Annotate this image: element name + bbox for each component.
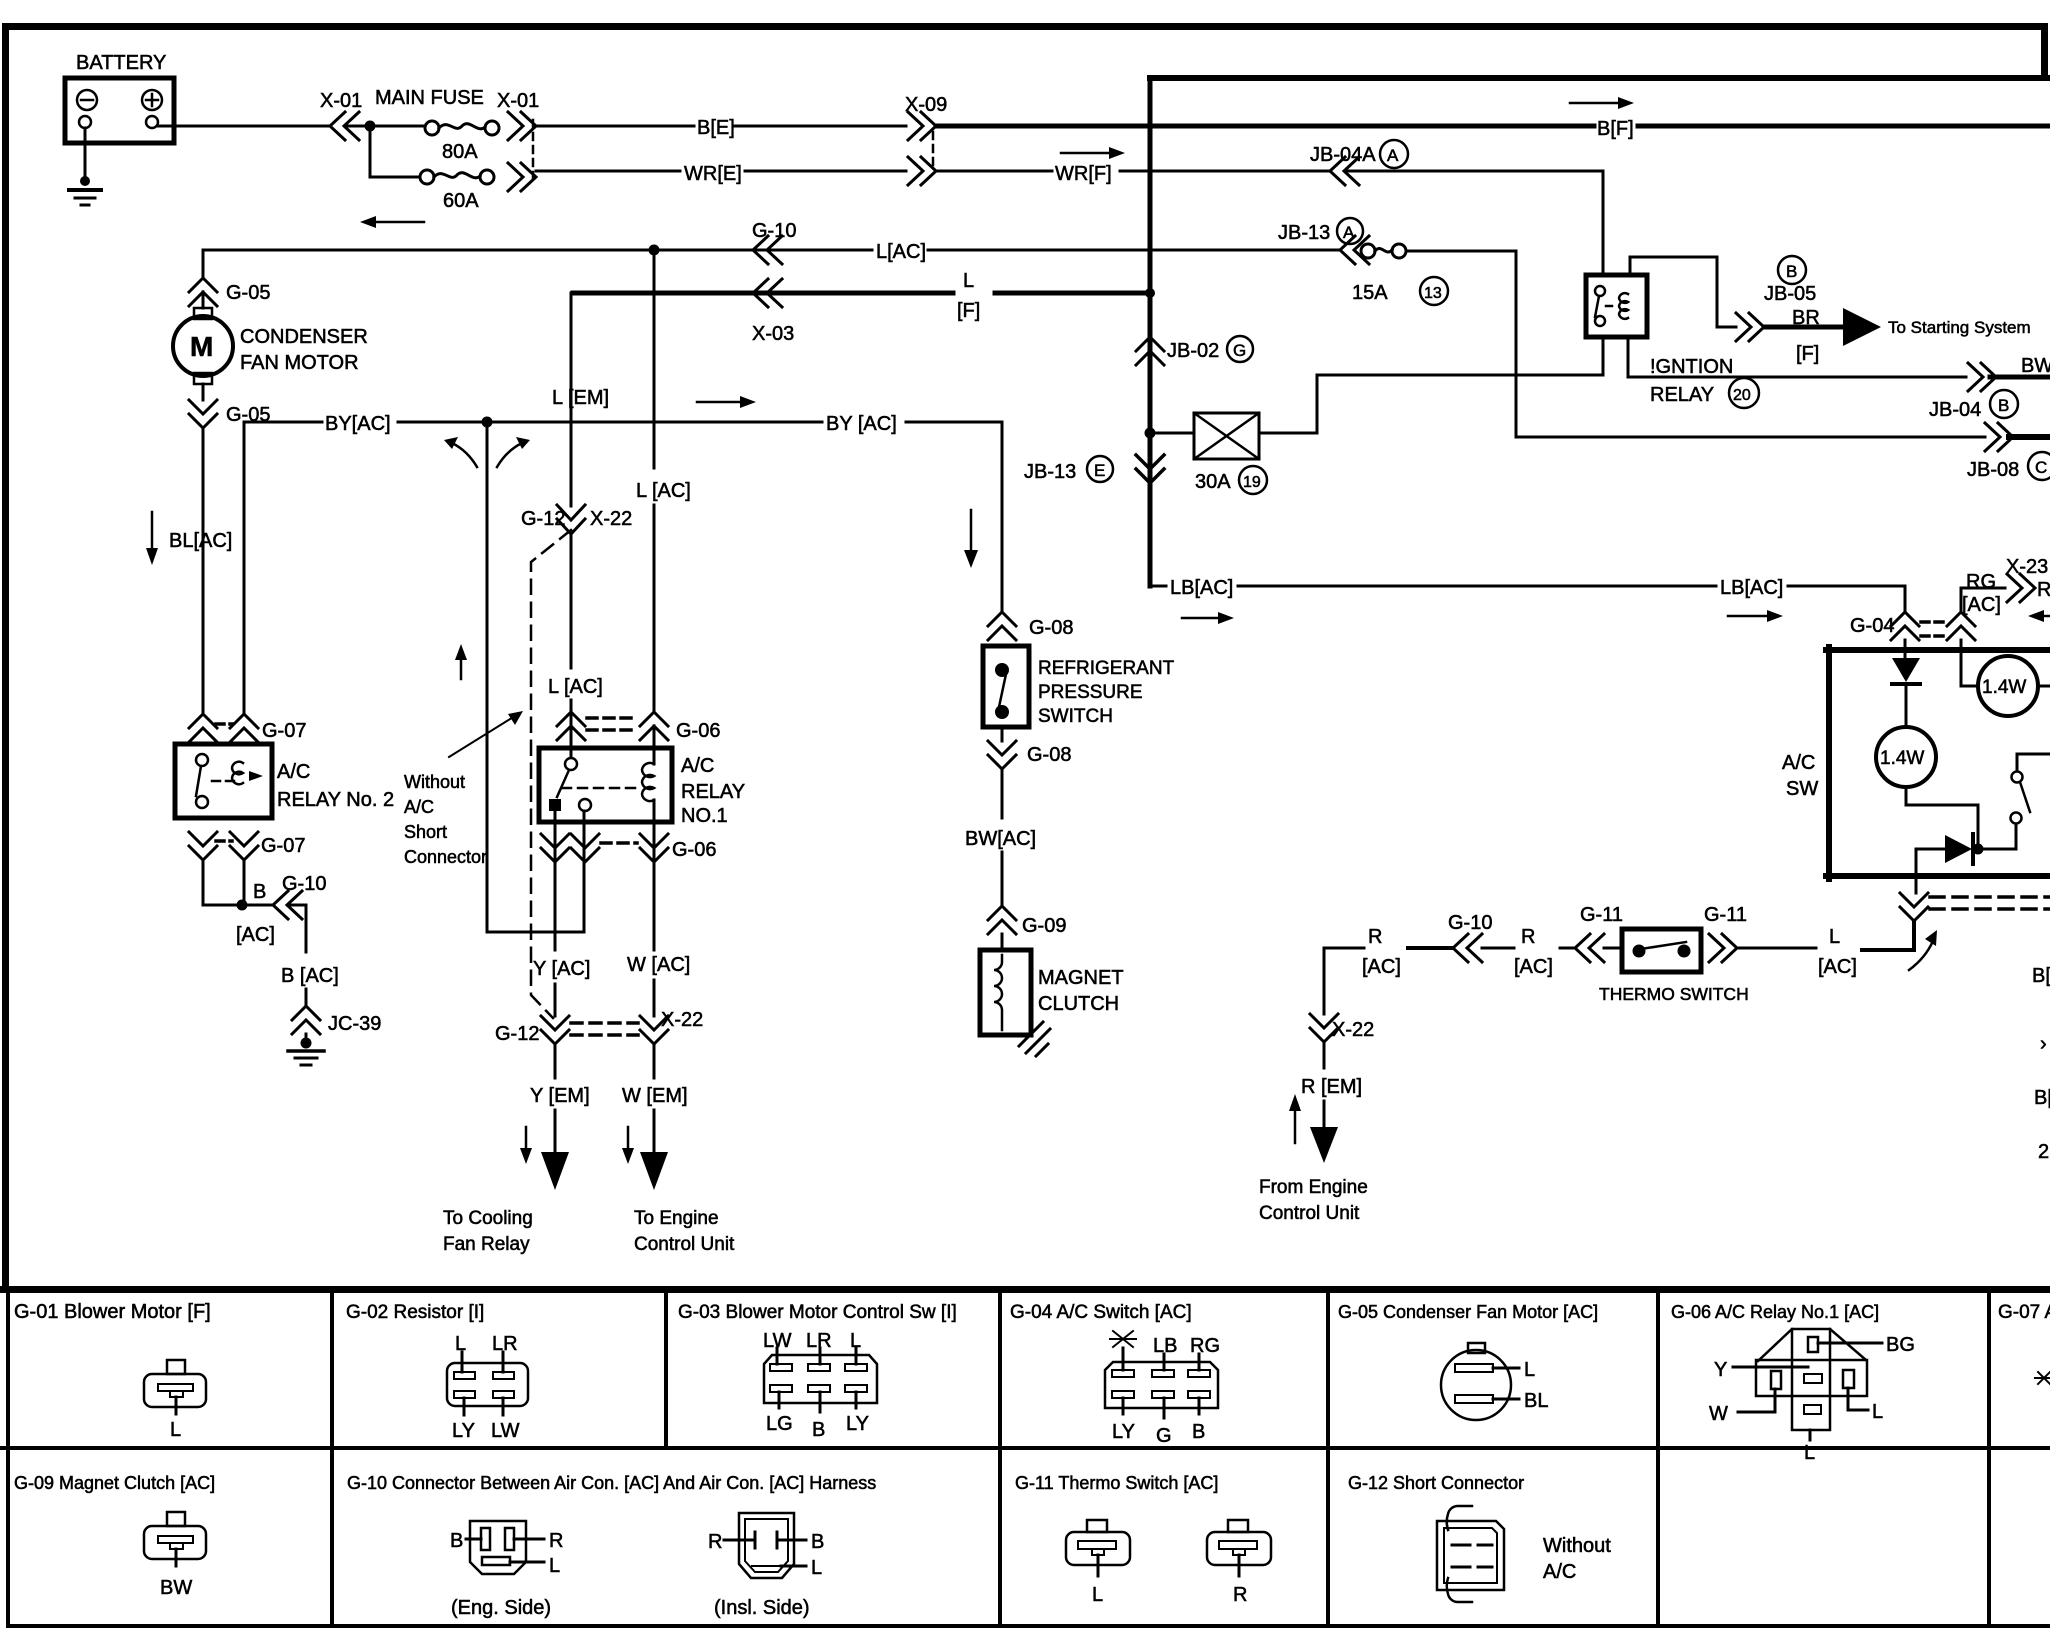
svg-text:NO.1: NO.1 (681, 805, 728, 827)
wire thermo row left + R[AC] (1324, 926, 1452, 978)
svg-text:G-10 Connector Between Air Con: G-10 Connector Between Air Con. [AC] And… (347, 1473, 876, 1493)
svg-text:X-22: X-22 (1332, 1019, 1374, 1041)
svg-text:R: R (1368, 926, 1382, 948)
connector G-08 (bottom) (988, 741, 1071, 769)
arrow right above B[F] (1570, 97, 1634, 109)
svg-text:Y [AC]: Y [AC] (533, 958, 590, 980)
relay ignition relay (20) (1586, 275, 1759, 408)
text To Engine Control Unit (634, 1208, 735, 1255)
svg-text:L: L (1092, 1584, 1103, 1606)
svg-text:Connector: Connector (404, 847, 487, 867)
wire L[AC] down to thermo row (1862, 921, 1914, 950)
wire G-04 into box (1904, 640, 1907, 658)
connector X-22 (R line) (1310, 1014, 1374, 1042)
svg-text:SW: SW (1786, 778, 1818, 800)
svg-text:›: › (2040, 1033, 2047, 1055)
connector G-10 (thermo) (1448, 912, 1492, 962)
svg-text:LB[AC]: LB[AC] (1720, 577, 1783, 599)
cell G-01 Blower Motor (14, 1301, 211, 1441)
svg-text:BW[AC]: BW[AC] (965, 828, 1036, 850)
svg-text:M: M (190, 331, 213, 362)
svg-text:G-05: G-05 (226, 282, 270, 304)
svg-text:JB-08: JB-08 (1967, 459, 2019, 481)
wire Y[AC] (533, 811, 590, 1016)
connector G-11 (left) (1575, 904, 1623, 962)
svg-text:L: L (1524, 1359, 1535, 1381)
svg-text:A/C: A/C (1543, 1561, 1576, 1583)
wire LB down to G-04 (1904, 586, 1907, 612)
lamp 1.4W (right) (1978, 656, 2050, 716)
svg-text:RG: RG (1190, 1335, 1220, 1357)
wire without-A/C dashed bypass (531, 530, 571, 1018)
wire L[AC] to motor (202, 250, 205, 278)
svg-text:WR[F]: WR[F] (1055, 163, 1112, 185)
wire LB[AC] (1150, 577, 1905, 599)
svg-text:B: B (811, 1531, 824, 1553)
connector G-10 (B[AC]) (236, 873, 326, 946)
connector X-01 (right, double row) (497, 90, 539, 191)
node 30A branch (1145, 428, 1156, 439)
wire BW[AC] (965, 727, 1036, 906)
svg-text:BY [AC]: BY [AC] (826, 413, 897, 435)
wire R[EM] (1301, 1042, 1362, 1127)
svg-text:G-08: G-08 (1027, 744, 1071, 766)
cell G-05 Condenser Fan Motor (1338, 1302, 1598, 1420)
text To Cooling Fan Relay (443, 1208, 533, 1255)
svg-text:L [AC]: L [AC] (636, 480, 691, 502)
svg-text:B[: B[ (2034, 1087, 2050, 1109)
arrow left above L[AC] (360, 216, 424, 228)
wire L[AC] coil branch vertical (636, 250, 691, 862)
svg-text:SWITCH: SWITCH (1038, 706, 1113, 727)
svg-text:RELAY: RELAY (1650, 384, 1714, 406)
svg-text:G-10: G-10 (752, 220, 796, 242)
fuse 80A (425, 121, 499, 163)
svg-text:[F]: [F] (1796, 343, 1819, 365)
svg-text:G-12 Short Connector: G-12 Short Connector (1348, 1473, 1524, 1493)
wire battery plus to main fuse (158, 125, 330, 128)
ground (battery) (69, 176, 101, 205)
connector G-06 (top) (557, 712, 720, 742)
border frame right stub (2041, 23, 2048, 80)
svg-text:RELAY: RELAY (681, 781, 745, 803)
svg-text:BW[F: BW[F (2021, 355, 2050, 377)
connector G-07 (top) (189, 714, 306, 742)
svg-text:FAN MOTOR: FAN MOTOR (240, 352, 359, 374)
svg-text:Y: Y (1714, 1359, 1727, 1381)
svg-text:JB-02: JB-02 (1167, 340, 1219, 362)
connector below A/C SW box (1900, 893, 2050, 921)
wire BR[F] to starting system (1764, 307, 2031, 365)
svg-text:Control Unit: Control Unit (634, 1234, 735, 1255)
svg-text:B: B (1786, 262, 1797, 281)
wire L[EM] vertical (552, 293, 609, 506)
wire RG[AC] from X-23 (1961, 556, 2050, 616)
svg-text:30A: 30A (1195, 471, 1231, 493)
power rail top right (thick) (1150, 75, 2050, 81)
svg-text:G-07: G-07 (262, 720, 306, 742)
svg-text:A: A (1387, 146, 1399, 165)
arrow up annotation (BY column) (455, 644, 467, 679)
cell G-10 connector harness (347, 1473, 876, 1619)
svg-text:L: L (1829, 926, 1840, 948)
svg-text:LG: LG (766, 1413, 793, 1435)
svg-text:G-04: G-04 (1850, 615, 1894, 637)
svg-text:L [AC]: L [AC] (548, 676, 603, 698)
connector X-03 (752, 279, 794, 345)
connector JC-39 (292, 1006, 381, 1035)
svg-text:BW: BW (160, 1577, 192, 1599)
svg-text:Control Unit: Control Unit (1259, 1203, 1360, 1224)
svg-text:X-23: X-23 (2006, 556, 2048, 578)
svg-text:MAIN FUSE: MAIN FUSE (375, 87, 484, 109)
svg-text:(Eng. Side): (Eng. Side) (451, 1597, 551, 1619)
svg-text:E: E (1094, 461, 1105, 480)
svg-text:Short: Short (404, 822, 447, 842)
cell G-07 (cut) (1998, 1302, 2050, 1384)
fuse 15A (13) (1352, 244, 1448, 305)
svg-text:CONDENSER: CONDENSER (240, 326, 368, 348)
border frame left (2, 23, 9, 1289)
svg-text:G-05: G-05 (226, 404, 270, 426)
svg-text:G-04 A/C Switch [AC]: G-04 A/C Switch [AC] (1010, 1302, 1192, 1323)
connector JB-04A (A) (1310, 140, 1408, 185)
motor M (condenser fan motor) (173, 292, 368, 400)
svg-text:C: C (2035, 458, 2047, 477)
svg-text:JB-13: JB-13 (1278, 222, 1330, 244)
node L[AC] branch (649, 245, 660, 256)
connector G-09 (988, 906, 1066, 937)
svg-text:[AC]: [AC] (1962, 594, 2001, 616)
svg-text:LY: LY (452, 1420, 475, 1442)
svg-text:19: 19 (1243, 474, 1261, 491)
connector JB-04 (B) (1929, 355, 2050, 421)
text Without A/C Short Connector (404, 711, 523, 867)
wire BY left corner down to relay No.2 (243, 422, 246, 714)
svg-text:Y [EM]: Y [EM] (530, 1085, 590, 1107)
wire junction to 80A fuse (345, 125, 425, 128)
wire B[E] (536, 117, 906, 139)
svg-text:B: B (812, 1419, 825, 1441)
svg-text:G: G (1156, 1425, 1172, 1447)
wire 15A fuse to JB-08 run (1406, 251, 1985, 437)
arrow right above BY wire (697, 396, 756, 408)
svg-text:Fan Relay: Fan Relay (443, 1234, 530, 1255)
svg-text:JC-39: JC-39 (328, 1013, 381, 1035)
connector G-12 (bottom) (495, 1016, 569, 1045)
svg-text:A/C: A/C (681, 755, 714, 777)
svg-text:L: L (170, 1419, 181, 1441)
svg-text:L [EM]: L [EM] (552, 387, 609, 409)
ground JC-39 (288, 1034, 324, 1065)
svg-text:To Cooling: To Cooling (443, 1208, 533, 1229)
svg-text:[AC]: [AC] (236, 924, 275, 946)
svg-text:W [EM]: W [EM] (622, 1085, 688, 1107)
svg-text:B: B (1192, 1421, 1205, 1443)
svg-text:L[AC]: L[AC] (876, 241, 926, 263)
svg-text:R: R (708, 1531, 722, 1553)
wire BY branch to relay No.1 contact (487, 422, 584, 932)
magnet clutch (980, 934, 1124, 1035)
wire ignition relay to JB-05 (1630, 257, 1736, 327)
connector G-04 (1850, 612, 1975, 640)
icon inst side (739, 1513, 794, 1578)
connector G-08 (top) (988, 612, 1073, 640)
svg-text:G: G (1233, 341, 1246, 360)
border frame top (2, 23, 2045, 30)
diode (A/C SW illumination) (1892, 658, 1920, 684)
wire feed to 30A fuse (1150, 432, 1194, 435)
svg-text:L: L (811, 1557, 822, 1579)
svg-text:1.4W: 1.4W (1880, 748, 1924, 769)
svg-text:B: B (253, 881, 266, 903)
arrow down beside pressure wire (964, 510, 978, 568)
connector G-06 (bottom) (541, 834, 716, 862)
wire Y[EM] (530, 1044, 590, 1152)
svg-text:!GNTION: !GNTION (1650, 356, 1733, 378)
connector G-05 (top) (189, 278, 270, 306)
svg-text:13: 13 (1424, 285, 1442, 302)
switch refrigerant pressure switch (983, 646, 1175, 727)
relay A/C RELAY No. 2 (175, 744, 394, 818)
wire L[AC] relay branch vertical (548, 534, 603, 757)
svg-text:BL[AC]: BL[AC] (169, 530, 232, 552)
wire main vertical feed (thick) (1148, 78, 1153, 586)
svg-text:BATTERY: BATTERY (76, 52, 166, 74)
connector G-10 on L[AC] (752, 220, 796, 264)
connector G-11 (right) (1704, 904, 1747, 962)
wire B[AC] to ground (281, 905, 339, 1006)
svg-text:X-01: X-01 (497, 90, 539, 112)
svg-text:JB-04A: JB-04A (1310, 144, 1376, 166)
arrow right above WR[F] (1061, 147, 1125, 159)
svg-text:B: B (1998, 396, 2009, 415)
wire BY down to pressure switch (1001, 422, 1004, 612)
svg-text:G-09: G-09 (1022, 915, 1066, 937)
svg-text:LW: LW (491, 1420, 520, 1442)
svg-text:G-11: G-11 (1580, 904, 1623, 926)
curved arrows at BY node (444, 437, 530, 467)
svg-text:WR[E]: WR[E] (684, 163, 742, 185)
svg-text:G-07 A: G-07 A (1998, 1302, 2050, 1323)
svg-text:L: L (1804, 1442, 1815, 1464)
svg-text:B[: B[ (2032, 965, 2050, 987)
wire BY[AC] horizontal (244, 413, 1002, 435)
svg-text:B[E]: B[E] (697, 117, 735, 139)
svg-text:L: L (963, 270, 974, 292)
wire L[AC] thermo to A/C SW (1737, 926, 1857, 978)
connector JB-13 (A) (1278, 218, 1369, 264)
connector G-12 / X-22 (top, short connector) (521, 505, 632, 534)
cell G-06 A/C Relay No.1 (1671, 1302, 1915, 1464)
wire RG to lamp (right) (1961, 640, 1978, 686)
fuse 30A (19) fusible link (1194, 413, 1267, 494)
connector X-22 (bottom) (571, 1009, 703, 1044)
battery (65, 52, 174, 143)
svg-text:X-09: X-09 (905, 94, 947, 116)
connector JB-02 (G) on vertical feed (1136, 336, 1253, 365)
svg-text:Without: Without (404, 772, 465, 792)
svg-text:B: B (450, 1530, 463, 1552)
svg-text:A/C: A/C (404, 797, 434, 817)
svg-text:R: R (549, 1530, 563, 1552)
svg-text:A/C: A/C (1782, 752, 1815, 774)
svg-text:G-12: G-12 (495, 1023, 539, 1045)
table verticals row1 (330, 1293, 334, 1450)
svg-text:RG: RG (1966, 571, 1996, 593)
cell G-12 Short Connector (1348, 1473, 1611, 1602)
node B[AC] junction (237, 900, 248, 911)
svg-text:X-01: X-01 (320, 90, 362, 112)
wire B[F] (thick rail) (936, 118, 2050, 140)
svg-text:G-06 A/C Relay No.1 [AC]: G-06 A/C Relay No.1 [AC] (1671, 1302, 1879, 1322)
ground magnet clutch (1019, 1022, 1050, 1056)
svg-text:G-10: G-10 (1448, 912, 1492, 934)
svg-text:[F]: [F] (957, 300, 980, 322)
svg-text:G-02 Resistor [I]: G-02 Resistor [I] (346, 1302, 484, 1323)
table verticals row2 (330, 1450, 334, 1626)
wire WR[F] to ignition relay (1345, 171, 1603, 275)
cell G-11 Thermo Switch (1015, 1473, 1271, 1606)
svg-text:G-06: G-06 (676, 720, 720, 742)
svg-text:G-05 Condenser Fan Motor [AC]: G-05 Condenser Fan Motor [AC] (1338, 1302, 1598, 1322)
table bottom border (6, 1624, 2050, 1628)
arrow down BL[AC] (146, 512, 232, 565)
svg-text:[AC]: [AC] (1818, 956, 1857, 978)
table connector index (0, 1286, 2050, 1628)
wire W[AC] (627, 862, 690, 1016)
svg-text:G-11 Thermo Switch [AC]: G-11 Thermo Switch [AC] (1015, 1473, 1218, 1493)
svg-text:[AC]: [AC] (1514, 956, 1553, 978)
svg-text:X-22: X-22 (590, 508, 632, 530)
connector JB-05 (B) (1736, 256, 1816, 341)
svg-text:From Engine: From Engine (1259, 1177, 1368, 1198)
diode thyristor (right-pointing) (1945, 834, 2016, 864)
icon eng side (470, 1521, 526, 1574)
svg-text:BG: BG (1886, 1334, 1915, 1356)
text right edge partial labels (2032, 965, 2050, 1163)
svg-text:LR: LR (492, 1333, 518, 1355)
wire relay contact down (crosses BY) (583, 811, 586, 932)
wire battery minus to ground (84, 128, 87, 177)
svg-text:A/C: A/C (277, 761, 310, 783)
svg-text:PRESSURE: PRESSURE (1038, 682, 1143, 703)
table left border (6, 1286, 10, 1628)
svg-text:B[F]: B[F] (1597, 118, 1634, 140)
svg-text:CLUTCH: CLUTCH (1038, 993, 1119, 1015)
svg-text:B [AC]: B [AC] (281, 965, 339, 987)
cell G-03 Blower Motor Control Sw (678, 1302, 957, 1441)
svg-text:60A: 60A (443, 190, 479, 212)
svg-text:X-03: X-03 (752, 323, 794, 345)
arrow right below LB[AC] (1182, 610, 1783, 624)
wire diode to lamp (1905, 686, 1908, 727)
wire L[AC] top run (203, 241, 1340, 263)
svg-text:G-11: G-11 (1704, 904, 1747, 926)
svg-text:2: 2 (2038, 1141, 2049, 1163)
switch thermo switch (1599, 929, 1749, 1004)
svg-text:X-22: X-22 (661, 1009, 703, 1031)
table row divider (0, 1446, 2050, 1450)
table top border (0, 1286, 2050, 1293)
svg-text:REFRIGERANT: REFRIGERANT (1038, 658, 1175, 679)
node thyristor junction (1973, 844, 1984, 855)
svg-text:To Starting System: To Starting System (1888, 318, 2031, 337)
wire W[EM] (622, 1044, 688, 1152)
svg-text:BL: BL (1524, 1390, 1548, 1412)
svg-text:THERMO SWITCH: THERMO SWITCH (1599, 984, 1749, 1004)
svg-text:Without: Without (1543, 1535, 1611, 1557)
svg-text:JB-04: JB-04 (1929, 399, 1981, 421)
wire R[AC] down from thermo row (1323, 948, 1326, 1014)
connector G-07 (bottom) (189, 832, 305, 860)
svg-text:LY: LY (1112, 1421, 1135, 1443)
svg-text:80A: 80A (442, 141, 478, 163)
connector JB-08 (C) (1967, 423, 2050, 481)
box A/C SW (1782, 647, 2050, 879)
svg-text:W [AC]: W [AC] (627, 954, 690, 976)
cell G-09 Magnet Clutch (14, 1473, 215, 1599)
svg-text:BR: BR (1792, 307, 1820, 329)
svg-text:[AC]: [AC] (1362, 956, 1401, 978)
switch A/C SW contacts (2011, 754, 2050, 849)
svg-text:G-09 Magnet Clutch [AC]: G-09 Magnet Clutch [AC] (14, 1473, 215, 1493)
curved arrow at thermo corner (1909, 930, 1937, 970)
connector X-01 (left) (320, 90, 362, 140)
svg-text:G-03 Blower Motor Control Sw [: G-03 Blower Motor Control Sw [I] (678, 1302, 957, 1323)
svg-text:G-08: G-08 (1029, 617, 1073, 639)
wire L[F] thick (X-03 run) (573, 270, 1150, 322)
node L[F] joins feed (1145, 288, 1155, 298)
svg-text:MAGNET: MAGNET (1038, 967, 1124, 989)
wire WR[E] (536, 163, 906, 185)
wire BW[F] from relay (1628, 337, 1966, 377)
lamp 1.4W (left) (1876, 727, 1936, 787)
arrow from engine control unit (1259, 1094, 1368, 1224)
svg-text:LB[AC]: LB[AC] (1170, 577, 1233, 599)
svg-text:RELAY No. 2: RELAY No. 2 (277, 789, 394, 811)
fuse 60A (420, 170, 494, 212)
svg-text:BY[AC]: BY[AC] (325, 413, 391, 435)
svg-text:JB-13: JB-13 (1024, 461, 1076, 483)
svg-text:JB-05: JB-05 (1764, 283, 1816, 305)
svg-text:1.4W: 1.4W (1982, 677, 2026, 698)
connector G-05 (bottom) (189, 400, 270, 428)
wire motor down to relay No.2 (202, 428, 205, 714)
svg-text:G-07: G-07 (261, 835, 305, 857)
svg-text:R: R (2037, 579, 2050, 601)
cell G-04 A/C Switch (1010, 1302, 1220, 1447)
svg-text:20: 20 (1733, 387, 1751, 404)
svg-text:G-01 Blower Motor [F]: G-01 Blower Motor [F] (14, 1301, 211, 1323)
node main fuse junction (365, 121, 376, 132)
wire relay No.2 outputs join (203, 860, 242, 905)
wire lamp to thyristor node (1906, 787, 1978, 844)
svg-text:(Insl. Side): (Insl. Side) (714, 1597, 810, 1619)
svg-text:R: R (1521, 926, 1535, 948)
connector X-09 (double row) (905, 94, 947, 185)
svg-text:R: R (1233, 1584, 1247, 1606)
svg-text:L: L (1872, 1401, 1883, 1423)
svg-text:W: W (1709, 1403, 1728, 1425)
wire R[AC] middle (1482, 926, 1575, 978)
connector JB-13 (E) (1024, 455, 1164, 483)
arrow left below X-23 (2028, 610, 2050, 622)
node BY branch (482, 417, 493, 428)
relay A/C Relay No.1 (539, 748, 745, 827)
svg-text:15A: 15A (1352, 282, 1388, 304)
svg-text:R [EM]: R [EM] (1301, 1076, 1362, 1098)
